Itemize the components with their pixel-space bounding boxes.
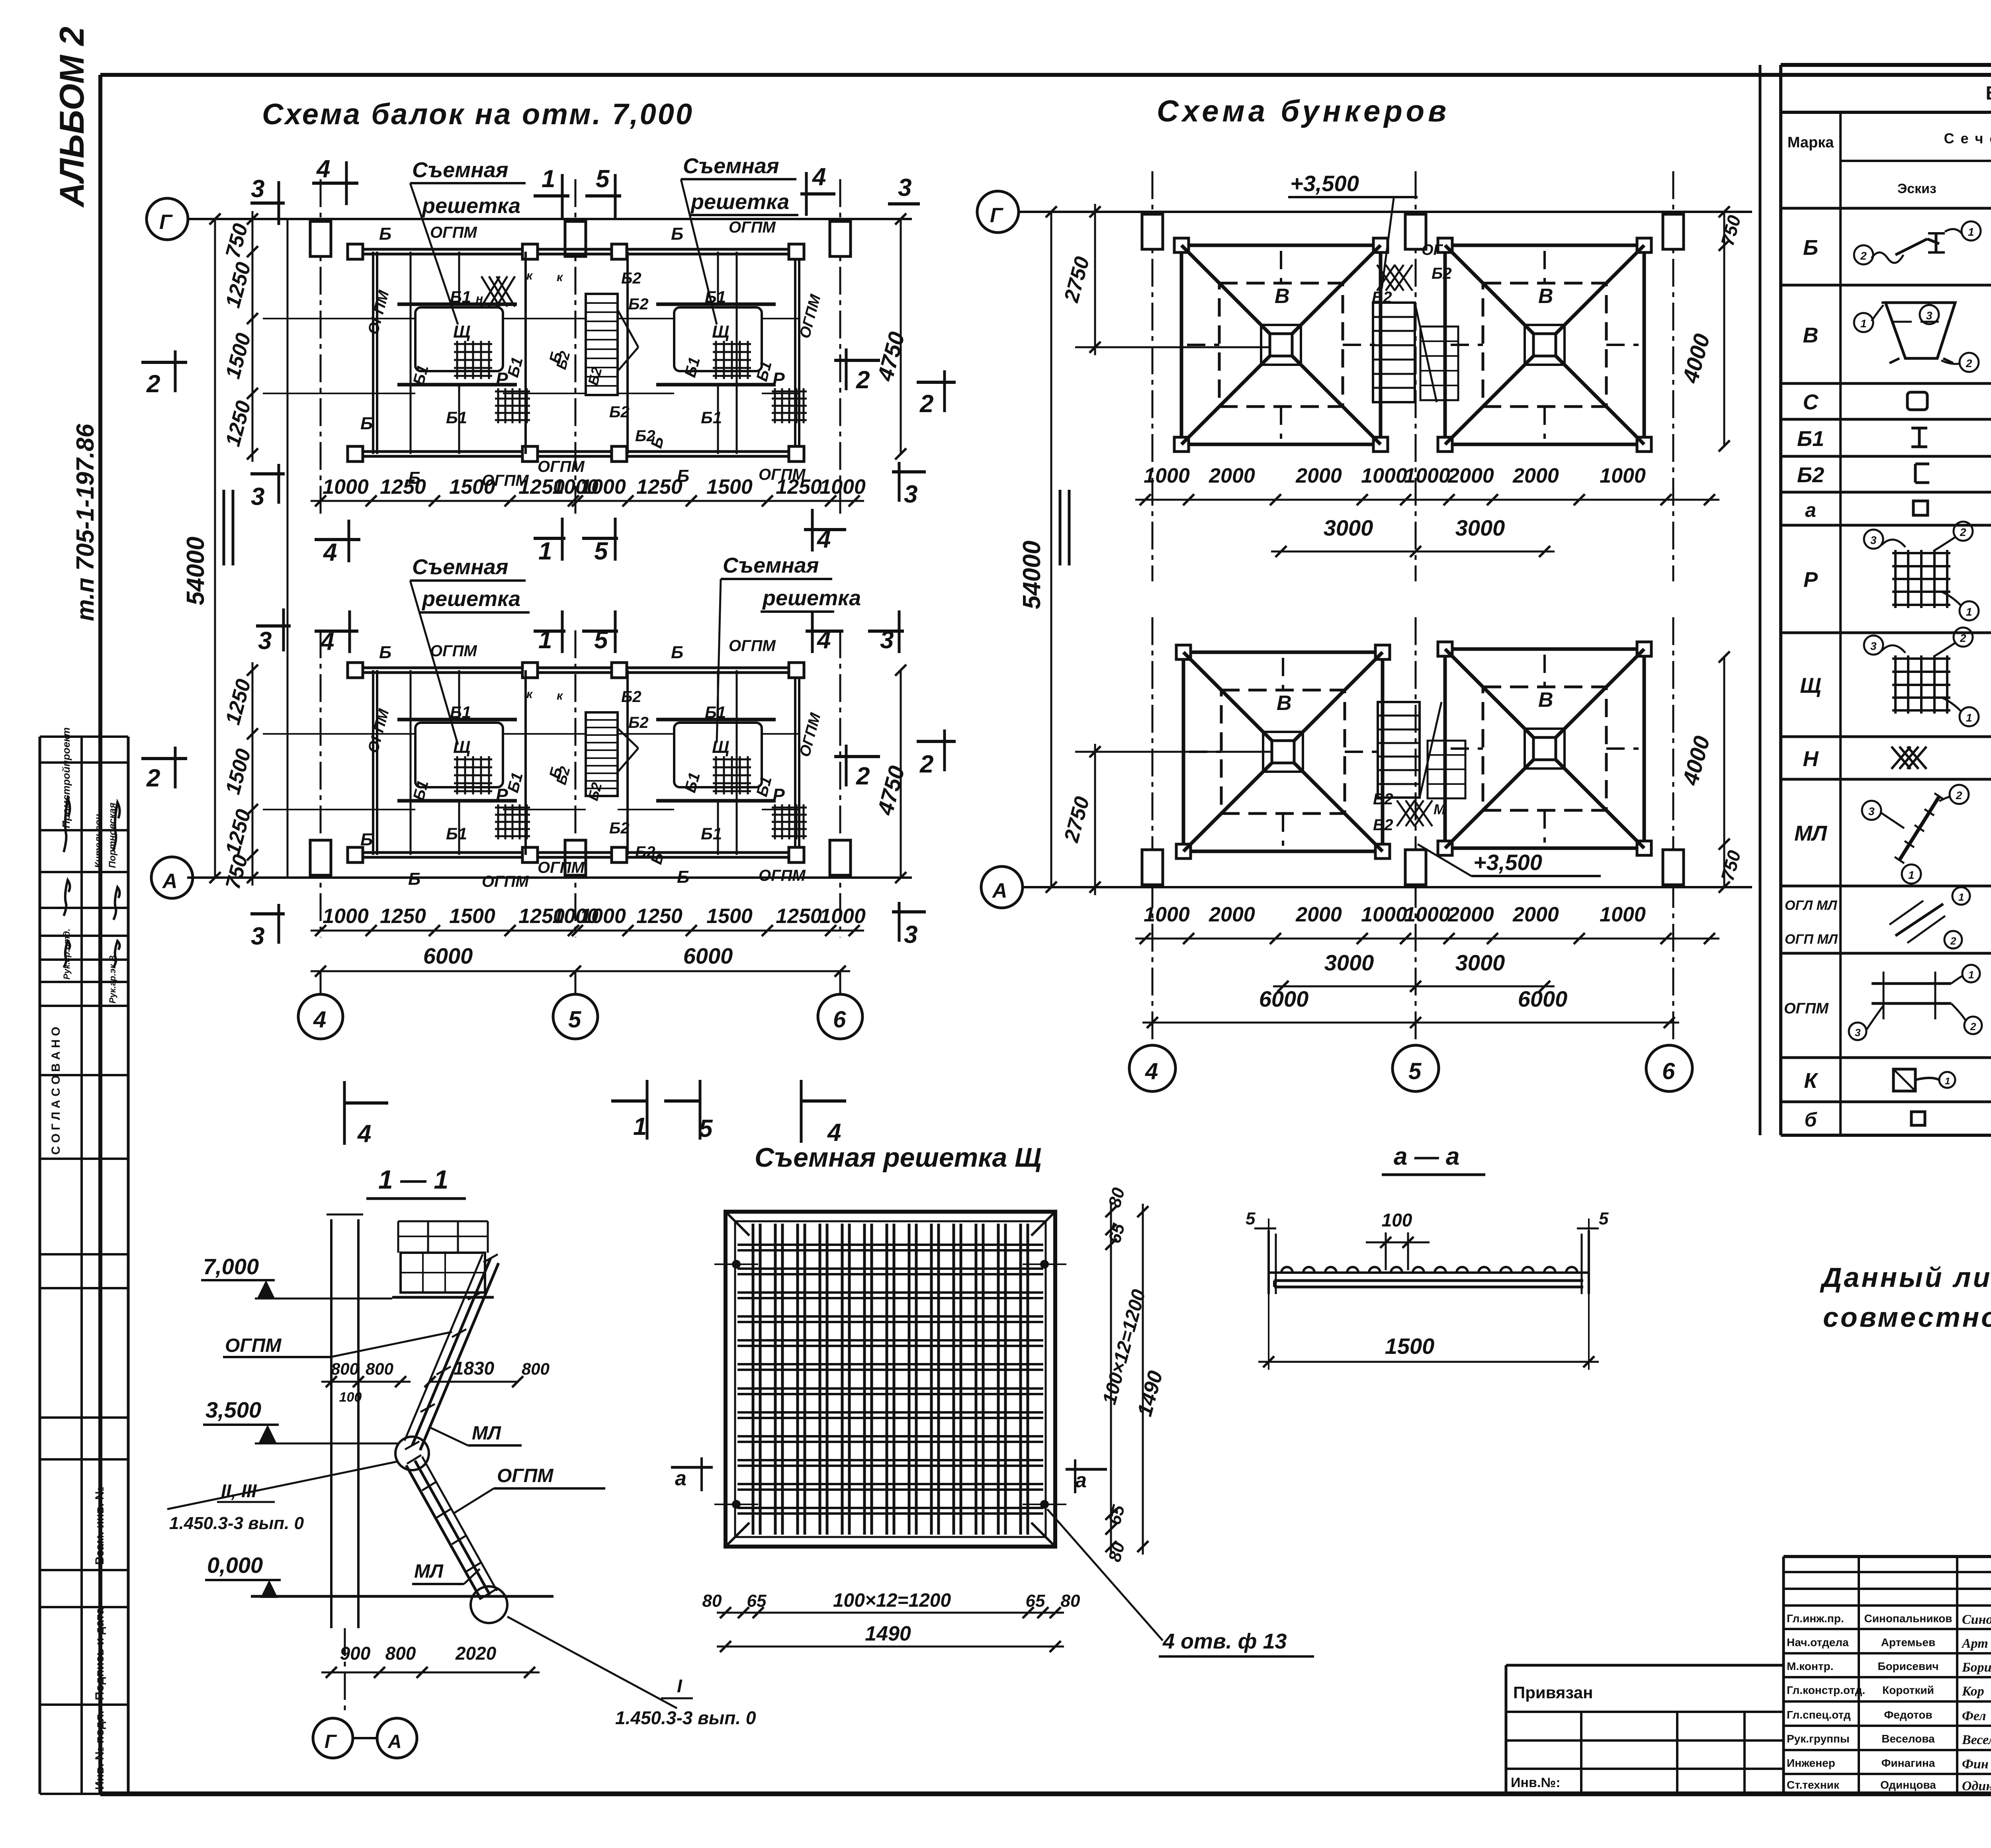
- beam ОГПМ right edge: [794, 670, 796, 855]
- svg-text:Р: Р: [496, 369, 508, 389]
- svg-text:1 — 1: 1 — 1: [378, 1165, 448, 1194]
- svg-text:800: 800: [385, 1643, 416, 1664]
- column axis: [320, 630, 322, 937]
- mid landing joint: [395, 1437, 429, 1470]
- svg-text:3: 3: [251, 175, 264, 203]
- bunker center square: [1272, 741, 1294, 763]
- svg-text:Нач.отдела: Нач.отдела: [1787, 1636, 1849, 1649]
- svg-text:4: 4: [816, 526, 831, 553]
- section mark 4 (top-left): [312, 182, 358, 185]
- svg-text:1: 1: [1968, 226, 1974, 238]
- svg-text:ВЕДОМОСТЬ ЭЛЕМЕНТОВ: ВЕДОМОСТЬ ЭЛЕМЕНТОВ: [1986, 83, 1991, 104]
- svg-text:1250: 1250: [776, 905, 822, 928]
- svg-text:Борисевич: Борисевич: [1878, 1660, 1938, 1672]
- beam Б top: [350, 248, 800, 251]
- column (section): [330, 1219, 332, 1628]
- а-а corrugated bar: [1281, 1267, 1293, 1273]
- svg-text:3000: 3000: [1455, 515, 1505, 540]
- beam line: [263, 733, 415, 735]
- svg-text:В: В: [1275, 285, 1290, 308]
- svg-text:Ст.техник: Ст.техник: [1787, 1779, 1840, 1791]
- svg-text:100×12=1200: 100×12=1200: [833, 1590, 951, 1611]
- svg-text:Фин: Фин: [1962, 1757, 1989, 1772]
- svg-text:2000: 2000: [1295, 903, 1342, 926]
- svg-text:1500: 1500: [706, 475, 753, 499]
- stair between bunkers (top plan): [1373, 303, 1415, 402]
- column axis: [320, 179, 322, 514]
- column plate: [522, 446, 538, 462]
- svg-text:Б2: Б2: [609, 819, 630, 837]
- svg-text:3: 3: [1855, 1027, 1861, 1038]
- bunker corner plate: [1176, 645, 1191, 659]
- bunker В outer square: [1445, 245, 1644, 444]
- beam Б1 short: [458, 252, 460, 304]
- svg-text:4: 4: [313, 1007, 326, 1033]
- svg-text:Веселова: Веселова: [1881, 1733, 1935, 1745]
- beam Б1: [524, 252, 527, 454]
- svg-text:ОГПМ: ОГПМ: [482, 873, 529, 890]
- svg-text:1000: 1000: [819, 905, 866, 928]
- svg-text:Г: Г: [159, 211, 173, 234]
- svg-text:3: 3: [1868, 805, 1875, 817]
- svg-text:Б2: Б2: [609, 403, 630, 421]
- svg-text:900: 900: [340, 1643, 371, 1664]
- svg-text:1000: 1000: [1404, 464, 1450, 487]
- svg-text:3000: 3000: [1455, 950, 1505, 975]
- column plate: [789, 847, 804, 862]
- grid axis line: [187, 876, 912, 879]
- а-а end plates: [1267, 1230, 1270, 1294]
- beam Б1 short: [717, 670, 719, 720]
- svg-text:Б: Б: [677, 867, 689, 887]
- bunker diagonals: [1183, 652, 1272, 741]
- table separator line (drawing area): [1759, 65, 1762, 1135]
- column axis: [839, 179, 841, 514]
- hatch М near stair: [1377, 265, 1395, 291]
- svg-text:1000: 1000: [323, 905, 369, 928]
- svg-text:ОГПМ: ОГПМ: [430, 642, 477, 660]
- svg-text:3: 3: [1926, 309, 1932, 322]
- svg-text:6000: 6000: [1259, 986, 1309, 1011]
- svg-text:Съемная: Съемная: [412, 555, 509, 579]
- svg-text:н: н: [476, 292, 483, 305]
- svg-text:5: 5: [1599, 1209, 1609, 1228]
- beam Б1: [736, 252, 738, 454]
- svg-text:а: а: [1075, 1469, 1087, 1492]
- svg-text:800: 800: [366, 1359, 393, 1378]
- svg-text:Синопальников: Синопальников: [1864, 1612, 1952, 1625]
- svg-text:Р: Р: [773, 369, 785, 389]
- svg-text:6: 6: [1662, 1058, 1675, 1084]
- svg-text:2: 2: [1970, 1021, 1976, 1033]
- table header: [1839, 112, 1842, 1135]
- svg-text:1000: 1000: [1600, 903, 1646, 926]
- bunker corner plate: [1174, 437, 1189, 452]
- svg-text:3: 3: [904, 921, 917, 948]
- svg-text:Б: Б: [671, 224, 683, 244]
- svg-text:Б2: Б2: [621, 688, 642, 706]
- column stub: [830, 221, 851, 256]
- svg-text:Рук.группы: Рук.группы: [1787, 1733, 1850, 1745]
- svg-text:решетка: решетка: [762, 586, 861, 610]
- svg-text:4: 4: [812, 163, 826, 191]
- svg-text:2: 2: [1950, 935, 1956, 947]
- sketch ОГПМ railing: [1872, 982, 1951, 985]
- svg-text:1000: 1000: [819, 475, 866, 499]
- svg-text:Эскиз: Эскиз: [1897, 181, 1936, 196]
- svg-text:Федотов: Федотов: [1884, 1709, 1932, 1721]
- bunker diagonals: [1181, 245, 1270, 334]
- svg-text:1: 1: [1958, 891, 1964, 903]
- svg-text:1000: 1000: [1361, 903, 1407, 926]
- svg-text:1000: 1000: [1600, 464, 1646, 487]
- plan2 bottom dim chain: [311, 930, 864, 932]
- svg-text:800: 800: [522, 1359, 550, 1378]
- column plate: [612, 446, 627, 462]
- bunker corner plate: [1176, 844, 1191, 858]
- svg-text:1: 1: [633, 1113, 647, 1140]
- section mark 3 (bottom-right): [892, 470, 926, 473]
- bunker dashed square: [1483, 283, 1606, 407]
- svg-text:а: а: [675, 1467, 686, 1490]
- bunker corner plate: [1438, 238, 1452, 252]
- beam line: [263, 318, 415, 319]
- svg-text:2000: 2000: [1447, 464, 1494, 487]
- svg-text:Один: Один: [1962, 1779, 1991, 1793]
- grating bearing bars (vertical): [752, 1224, 755, 1535]
- svg-text:800: 800: [331, 1359, 359, 1378]
- beam line: [263, 393, 415, 394]
- hatch symbol Н (riffled): [481, 276, 500, 307]
- bunker1 3000 dims: [1271, 551, 1555, 553]
- svg-text:а: а: [1805, 499, 1816, 521]
- svg-text:решетка: решетка: [690, 190, 789, 214]
- bunker diagonals: [1445, 649, 1533, 737]
- column stub: [310, 221, 331, 256]
- column plate: [522, 244, 538, 259]
- Привязан box: [1505, 1665, 1508, 1794]
- svg-text:Съемная: Съемная: [412, 158, 509, 182]
- svg-text:2000: 2000: [1295, 464, 1342, 487]
- beam Б1: [626, 252, 629, 454]
- column plate: [612, 847, 627, 862]
- grating cross bars (horizontal): [737, 1244, 1043, 1246]
- svg-text:3: 3: [258, 627, 272, 655]
- svg-text:Б2: Б2: [621, 270, 642, 287]
- grid bubble Г: [147, 198, 188, 240]
- svg-text:В: В: [1538, 285, 1553, 308]
- svg-text:Б: Б: [671, 643, 683, 662]
- svg-text:Весел: Весел: [1962, 1733, 1991, 1747]
- svg-text:Марка: Марка: [1788, 134, 1834, 151]
- grid bubble А: [151, 857, 193, 898]
- hatch symbol Н (riffled): [481, 276, 500, 307]
- leader 4 отв. ф13: [1047, 1509, 1163, 1641]
- svg-text:Инв. № подл.: Инв. № подл.: [93, 1711, 106, 1790]
- svg-text:6000: 6000: [683, 943, 733, 968]
- svg-text:С: С: [1803, 390, 1819, 414]
- svg-text:5: 5: [596, 165, 610, 193]
- bunker corner plate: [1637, 841, 1651, 855]
- svg-text:В: В: [1803, 323, 1819, 347]
- svg-text:Б2: Б2: [628, 714, 649, 731]
- svg-text:5: 5: [568, 1007, 581, 1033]
- svg-text:Б: Б: [379, 224, 391, 244]
- svg-text:1: 1: [1968, 969, 1974, 981]
- svg-text:3: 3: [251, 483, 264, 510]
- beam Б1: [736, 670, 738, 855]
- svg-text:1500: 1500: [449, 475, 495, 499]
- column stub: [1663, 850, 1684, 885]
- svg-text:Б2: Б2: [1432, 265, 1452, 282]
- svg-text:6000: 6000: [423, 943, 473, 968]
- svg-text:М.контр.: М.контр.: [1787, 1660, 1833, 1672]
- svg-text:В: В: [1538, 688, 1553, 712]
- column stub: [830, 840, 851, 875]
- svg-text:Р: Р: [1803, 568, 1818, 592]
- svg-text:к: к: [526, 688, 533, 701]
- svg-text:Б: Б: [1803, 236, 1818, 260]
- svg-text:Арт: Арт: [1961, 1636, 1988, 1651]
- svg-text:3,500: 3,500: [205, 1397, 261, 1422]
- svg-text:2: 2: [919, 390, 933, 418]
- beam Б1: [410, 670, 412, 855]
- svg-text:2: 2: [856, 366, 870, 394]
- opening (съемная решетка): [674, 307, 762, 371]
- svg-text:ОГП МЛ: ОГП МЛ: [1785, 932, 1838, 947]
- svg-text:Б2: Б2: [1797, 463, 1824, 487]
- svg-text:2000: 2000: [1209, 464, 1255, 487]
- plan1 left dim chain 750/1250/1500/1250: [252, 211, 254, 462]
- svg-text:80: 80: [1061, 1591, 1080, 1611]
- svg-text:2000: 2000: [1209, 903, 1255, 926]
- svg-text:5: 5: [1408, 1058, 1422, 1084]
- bottom joint: [471, 1586, 507, 1623]
- stair opening: [586, 294, 618, 395]
- svg-text:2: 2: [1960, 632, 1966, 644]
- section mark 2 (bunker bottom-left): [917, 740, 956, 743]
- svg-text:+3,500: +3,500: [1473, 850, 1542, 875]
- svg-text:Кительсон: Кительсон: [93, 814, 104, 868]
- column axis: [1152, 171, 1154, 581]
- column plate: [612, 244, 627, 259]
- а-а dim 1500: [1258, 1361, 1599, 1363]
- sketch В: hopper trapezoid: [1885, 303, 1955, 358]
- svg-text:Взам. инв. №: Взам. инв. №: [93, 1486, 106, 1565]
- svg-text:ОГПМ: ОГПМ: [497, 1465, 553, 1486]
- beam ОГПМ left edge: [372, 252, 374, 454]
- svg-text:2: 2: [1956, 789, 1962, 802]
- svg-text:5: 5: [1246, 1209, 1256, 1228]
- svg-text:5: 5: [699, 1115, 713, 1142]
- svg-text:Б1: Б1: [705, 703, 726, 722]
- column bubbles 4,5,6 (bunker): [1129, 1045, 1175, 1091]
- svg-text:1: 1: [538, 538, 552, 565]
- beam Б1 short: [458, 670, 460, 720]
- Г-А bubbles under section: [313, 1718, 353, 1758]
- svg-text:1: 1: [1966, 712, 1972, 724]
- svg-text:С О Г Л А С О В А Н О: С О Г Л А С О В А Н О: [49, 1027, 63, 1155]
- svg-text:Б2: Б2: [1373, 790, 1393, 808]
- bunker dashed mid-lines: [1189, 751, 1221, 753]
- section mark 2 (left): [141, 361, 187, 364]
- svg-text:Б1: Б1: [450, 287, 471, 306]
- svg-text:3000: 3000: [1324, 950, 1374, 975]
- svg-text:6: 6: [833, 1007, 846, 1033]
- bunker corner plate: [1637, 238, 1651, 252]
- bunker corner plate: [1375, 645, 1390, 659]
- svg-text:Б1: Б1: [1797, 427, 1824, 451]
- svg-text:Б: Б: [360, 830, 373, 849]
- column stub: [1142, 850, 1163, 885]
- grating holes: [732, 1260, 741, 1269]
- marks 4 / 1 5 / 4 below plan2: [344, 1101, 388, 1105]
- signature squiggles: [64, 798, 70, 852]
- column axis: [1152, 617, 1154, 1043]
- plan1 bottom dim chain: [311, 500, 864, 502]
- bottom bunker dims: [1094, 744, 1096, 895]
- svg-text:65: 65: [1026, 1591, 1045, 1611]
- svg-text:ОГПМ: ОГПМ: [538, 859, 585, 876]
- svg-text:б: б: [1805, 1109, 1818, 1131]
- svg-text:80: 80: [702, 1591, 722, 1611]
- section mark 3 (top-left): [250, 201, 285, 205]
- svg-text:1: 1: [1945, 1076, 1950, 1087]
- right dims 750 / 4000 (top bunker): [1723, 212, 1725, 446]
- bunker В outer square: [1183, 652, 1383, 851]
- beam Б top: [350, 667, 800, 669]
- svg-text:Сино-я: Сино-я: [1962, 1612, 1991, 1627]
- svg-text:1: 1: [1860, 317, 1867, 330]
- svg-text:4: 4: [323, 539, 337, 566]
- svg-text:Привязан: Привязан: [1513, 1683, 1593, 1702]
- svg-text:1000: 1000: [1361, 464, 1407, 487]
- plan1 right dim 4750: [900, 219, 902, 454]
- svg-text:1500: 1500: [449, 905, 495, 928]
- stair between bunkers (bottom plan): [1378, 702, 1420, 798]
- svg-text:ОГПМ: ОГПМ: [729, 219, 776, 236]
- svg-text:Б2: Б2: [1372, 289, 1392, 306]
- svg-text:ОГПМ: ОГПМ: [430, 224, 477, 241]
- svg-text:100: 100: [1382, 1210, 1412, 1230]
- svg-text:100: 100: [339, 1390, 362, 1405]
- svg-text:2020: 2020: [455, 1643, 497, 1664]
- svg-text:В: В: [1277, 692, 1292, 715]
- svg-text:Б1: Б1: [446, 824, 467, 843]
- svg-text:Короткий: Короткий: [1882, 1684, 1934, 1696]
- bunker corner plate: [1438, 437, 1452, 452]
- beam Б1: [410, 252, 412, 454]
- bunker dashed square: [1219, 283, 1343, 407]
- svg-text:Р: Р: [773, 785, 785, 806]
- svg-text:ОГ: ОГ: [1422, 242, 1443, 258]
- svg-text:1: 1: [1966, 606, 1972, 618]
- svg-text:Гл.спец.отд: Гл.спец.отд: [1787, 1709, 1851, 1721]
- svg-text:2000: 2000: [1512, 903, 1559, 926]
- svg-text:МЛ: МЛ: [472, 1423, 501, 1444]
- svg-text:Б1: Б1: [450, 703, 471, 722]
- svg-text:2: 2: [146, 370, 160, 398]
- svg-text:К: К: [1804, 1069, 1819, 1093]
- bunker diagonals: [1445, 245, 1533, 334]
- reference I / 1.450.3-3 вып.0: [507, 1617, 677, 1708]
- svg-text:+3,500: +3,500: [1290, 171, 1359, 196]
- svg-text:Данный лист рассматривать: Данный лист рассматривать: [1820, 1262, 1991, 1293]
- column axis: [1672, 171, 1674, 581]
- bunker corner plate: [1174, 238, 1189, 252]
- left margin stamp table: [39, 737, 41, 1794]
- opening (съемная решетка): [415, 723, 503, 787]
- svg-text:4 отв. ф 13: 4 отв. ф 13: [1162, 1629, 1287, 1653]
- beam Б bottom: [350, 851, 800, 854]
- svg-text:Гл.констр.отд.: Гл.констр.отд.: [1787, 1684, 1865, 1696]
- plan2 right dim 4750: [900, 670, 902, 878]
- column stub: [1405, 214, 1426, 249]
- bunker dashed mid-lines: [1187, 344, 1219, 346]
- svg-text:1250: 1250: [380, 905, 426, 928]
- column axis: [1672, 617, 1674, 1043]
- svg-text:А: А: [387, 1731, 402, 1752]
- svg-text:2: 2: [856, 763, 870, 790]
- svg-text:Г: Г: [325, 1731, 337, 1752]
- bunker center square: [1533, 737, 1556, 760]
- svg-text:Одинцова: Одинцова: [1880, 1779, 1936, 1791]
- bunker dashed mid-lines: [1451, 747, 1483, 750]
- svg-text:Б: Б: [379, 643, 391, 662]
- plan2 left dim chain 1250/1500/1250/750: [252, 662, 254, 886]
- opening (съемная решетка): [674, 723, 762, 787]
- drawing frame: [100, 73, 1991, 77]
- svg-text:Финагина: Финагина: [1881, 1757, 1935, 1769]
- column axis: [575, 179, 577, 514]
- svg-text:Н: Н: [1803, 747, 1819, 771]
- column bubbles 4,5,6 (beam plans): [320, 971, 322, 994]
- platform deck: [401, 1253, 485, 1293]
- plan2 bottom 3 marks: [250, 912, 285, 915]
- column axis: [1415, 617, 1417, 1043]
- grid axis line: [187, 218, 912, 220]
- svg-text:3: 3: [1870, 640, 1877, 652]
- column plate: [612, 663, 627, 678]
- svg-text:Фел: Фел: [1962, 1709, 1986, 1723]
- svg-text:Б2: Б2: [628, 295, 649, 313]
- bunker1 bottom dim chain: [1135, 499, 1719, 501]
- svg-text:1000: 1000: [1144, 464, 1190, 487]
- table row lines: [1781, 284, 1991, 287]
- grating bottom dim chain: [717, 1612, 1064, 1614]
- bunker dashed square: [1221, 690, 1345, 814]
- svg-text:Б: Б: [408, 869, 420, 889]
- bunker В outer square: [1445, 649, 1644, 848]
- section mark 3 (bottom-left): [250, 472, 285, 475]
- column plate: [789, 244, 804, 259]
- svg-text:Щ: Щ: [712, 322, 730, 342]
- svg-text:совместно с листом 8: совместно с листом 8: [1823, 1302, 1991, 1333]
- svg-text:1.450.3-3 вып. 0: 1.450.3-3 вып. 0: [169, 1514, 304, 1533]
- svg-text:2: 2: [919, 751, 933, 778]
- svg-text:1250: 1250: [776, 475, 822, 499]
- svg-text:ОГПМ: ОГПМ: [759, 867, 806, 884]
- column axis: [839, 630, 841, 937]
- column plate: [522, 663, 538, 678]
- svg-text:Съемная решетка Щ: Съемная решетка Щ: [755, 1142, 1041, 1173]
- svg-text:Схема балок на отм. 7,000: Схема балок на отм. 7,000: [262, 98, 694, 131]
- grating outer frame: [726, 1212, 1055, 1547]
- svg-text:Подпись и дата: Подпись и дата: [93, 1607, 106, 1700]
- plan2 top section marks: [256, 624, 291, 628]
- section mark 2 (right): [834, 359, 880, 362]
- svg-text:1000: 1000: [580, 475, 626, 499]
